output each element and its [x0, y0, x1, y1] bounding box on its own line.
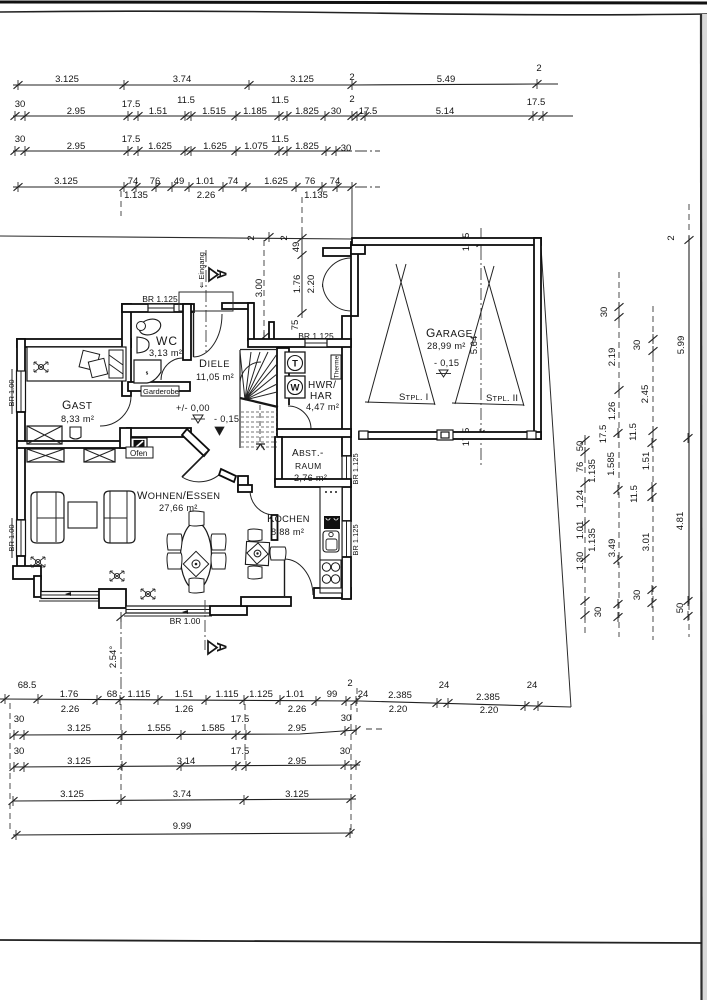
dim row 1 line	[13, 84, 558, 85]
svg-text:2.45: 2.45	[640, 385, 651, 404]
wall: gast top	[17, 339, 131, 347]
vertical dim 49 / 1.76 / 2.20 chain	[301, 238, 303, 314]
svg-text:5.14: 5.14	[436, 106, 455, 117]
svg-text:1.075: 1.075	[244, 141, 268, 152]
wall: house right outer, upper (HWR east)	[342, 316, 351, 456]
svg-text:17.5: 17.5	[359, 106, 378, 117]
gast stool	[70, 427, 81, 439]
svg-text:3.01: 3.01	[641, 533, 652, 552]
svg-text:BR 1.125: BR 1.125	[351, 524, 360, 555]
svg-text:3.00: 3.00	[254, 279, 265, 298]
gast wardrobe X	[27, 426, 62, 444]
window wohnen west BR 1.00	[17, 520, 26, 556]
wc shower	[134, 360, 161, 383]
wall: bay step block	[99, 589, 126, 608]
svg-text:1.135: 1.135	[587, 528, 598, 552]
svg-text:74: 74	[228, 176, 239, 187]
svg-text:2,76 m²: 2,76 m²	[294, 473, 327, 483]
svg-text:50: 50	[675, 603, 686, 614]
svg-text:WC: WC	[156, 334, 178, 348]
svg-text:T: T	[292, 359, 298, 370]
svg-text:2: 2	[347, 678, 352, 689]
svg-text:30: 30	[14, 746, 25, 757]
stair left edge	[239, 350, 241, 448]
wall: left outer lower segment	[17, 556, 25, 573]
svg-text:30: 30	[593, 607, 604, 618]
svg-text:76: 76	[575, 462, 586, 473]
svg-text:1.515: 1.515	[202, 106, 226, 117]
svg-text:- 0,15: - 0,15	[434, 358, 459, 368]
svg-text:3.74: 3.74	[173, 789, 192, 800]
svg-text:2.385: 2.385	[388, 690, 412, 701]
bottom row 1 line	[0, 699, 571, 707]
svg-text:DIELE: DIELE	[199, 358, 230, 370]
wall: abst west	[275, 437, 282, 482]
svg-text:ABST.-: ABST.-	[292, 448, 324, 459]
svg-text:5.49: 5.49	[437, 74, 456, 85]
scan border top second line	[0, 11, 707, 15]
svg-text:24: 24	[358, 689, 369, 700]
dim row 2 line	[13, 115, 573, 117]
entrance canopy	[179, 292, 233, 311]
svg-text:HWR/: HWR/	[308, 380, 336, 391]
vertical dim 3.00	[263, 240, 265, 336]
svg-text:30: 30	[340, 746, 351, 757]
window kitchen east BR 1.125	[342, 521, 351, 557]
node tick on property line	[265, 232, 274, 242]
dim row 3 line	[13, 150, 352, 152]
svg-text:2: 2	[349, 72, 354, 83]
scan border top thick line	[0, 2, 707, 3]
sink	[323, 531, 339, 552]
wall: bay corner bottom-left	[13, 566, 41, 579]
gast lamp	[34, 362, 48, 372]
svg-text:1.585: 1.585	[606, 452, 617, 476]
svg-text:A: A	[214, 269, 230, 279]
washer box W	[285, 376, 305, 398]
bottom block connectors	[9, 703, 11, 831]
svg-text:1.135: 1.135	[124, 190, 148, 201]
svg-text:2.20: 2.20	[480, 705, 499, 716]
wall: garage west	[351, 242, 358, 316]
kitchen door arc from diele	[250, 491, 272, 515]
svg-text:BR 1.125: BR 1.125	[351, 453, 360, 484]
svg-text:2.95: 2.95	[67, 106, 86, 117]
svg-text:3.49: 3.49	[607, 539, 618, 558]
nook diagonal wall 1	[182, 429, 209, 456]
svg-text:1.135: 1.135	[587, 459, 598, 483]
svg-text:9.99: 9.99	[173, 821, 192, 832]
svg-text:1.01: 1.01	[196, 176, 215, 187]
svg-text:1.625: 1.625	[264, 176, 288, 187]
svg-text:⇐ Eingang: ⇐ Eingang	[197, 252, 206, 288]
svg-text:KOCHEN: KOCHEN	[267, 513, 310, 525]
svg-text:Garderobe: Garderobe	[143, 387, 179, 396]
svg-text:4.81: 4.81	[675, 512, 686, 531]
kitchen south door leaf + arc	[284, 558, 286, 596]
therme box	[331, 355, 341, 379]
wall: front wall at wc with window	[122, 304, 194, 312]
stair top edge	[240, 349, 277, 351]
svg-text:99: 99	[327, 689, 338, 700]
svg-text:2.20: 2.20	[389, 704, 408, 715]
svg-text:30: 30	[15, 99, 26, 110]
extension dashes below row4	[120, 191, 122, 216]
svg-text:76: 76	[150, 176, 161, 187]
window bay middle BR 1.00	[126, 606, 210, 613]
svg-text:Ofen: Ofen	[130, 449, 147, 458]
svg-text:2: 2	[349, 94, 354, 105]
wall: wc east	[183, 304, 191, 360]
svg-text:A: A	[214, 642, 230, 652]
dining chairs	[167, 534, 182, 550]
sofa left	[31, 492, 64, 543]
sideboard X boxes	[27, 449, 64, 462]
stair walk line + arrow	[259, 405, 261, 444]
right col 3	[652, 306, 654, 640]
svg-text:17.5: 17.5	[231, 714, 250, 725]
svg-text:1.115: 1.115	[127, 689, 150, 700]
svg-text:2: 2	[246, 235, 257, 240]
svg-text:1.135: 1.135	[304, 190, 328, 201]
2.54 extension line	[120, 617, 122, 700]
svg-text:BR 1.125: BR 1.125	[142, 294, 178, 304]
wall: garage top	[352, 238, 541, 245]
svg-text:30: 30	[599, 307, 610, 318]
svg-text:76: 76	[305, 176, 316, 187]
wall: hwr top with window	[248, 339, 351, 347]
svg-text:11.5: 11.5	[628, 423, 639, 441]
svg-text:2.95: 2.95	[288, 756, 307, 767]
nook wall 3	[219, 469, 236, 482]
garage swing triangle I	[365, 264, 435, 405]
svg-text:1.30: 1.30	[575, 552, 586, 571]
garage center dash line	[480, 228, 482, 468]
scan border bottom line	[0, 940, 702, 943]
svg-text:30: 30	[331, 106, 342, 117]
stair walk arc	[240, 362, 261, 384]
svg-text:50: 50	[575, 441, 586, 452]
svg-text:3.125: 3.125	[54, 176, 78, 187]
svg-text:17.5: 17.5	[598, 425, 609, 444]
svg-text:W: W	[291, 383, 300, 394]
svg-text:74: 74	[128, 176, 139, 187]
wall: front wall right of door	[222, 303, 253, 309]
nook door swing arc	[182, 471, 223, 482]
section marker A top	[209, 268, 218, 281]
lower flight treads	[241, 412, 277, 447]
wall: abst bottom	[275, 479, 351, 487]
wall: porch top	[323, 248, 352, 256]
cooktop 4 rings	[320, 560, 341, 588]
right col 4	[688, 204, 690, 232]
svg-text:11.5: 11.5	[177, 95, 195, 106]
bottom row 3 line	[13, 765, 360, 767]
wall: left outer mid segment	[17, 412, 25, 520]
hob black	[324, 516, 340, 529]
wall: gast bottom	[17, 441, 127, 448]
svg-text:1.76: 1.76	[60, 689, 79, 700]
svg-text:1.51: 1.51	[641, 452, 652, 471]
svg-text:BR 1.00: BR 1.00	[7, 379, 16, 406]
svg-text:+/- 0,00: +/- 0,00	[176, 403, 210, 413]
wall: hwr bottom / abst top	[277, 429, 351, 437]
garage bottom corner blocks	[359, 431, 368, 439]
kitchen table diamond	[245, 541, 269, 565]
door gap hwr west	[281, 405, 290, 429]
svg-text:2.19: 2.19	[607, 348, 618, 367]
dim row 4 line	[13, 186, 352, 188]
wall: bottom mid (kitchen left part)	[241, 597, 291, 606]
svg-text:1.825: 1.825	[295, 141, 319, 152]
ceiling outlets	[31, 557, 45, 567]
svg-text:4,47 m²: 4,47 m²	[306, 402, 339, 412]
wall: bay block right	[210, 606, 247, 615]
svg-text:1.625: 1.625	[148, 141, 172, 152]
wall: garage east	[534, 238, 541, 439]
wc toilet	[137, 316, 163, 337]
wc door arc	[161, 358, 183, 380]
svg-text:49: 49	[291, 242, 302, 253]
svg-text:11.5: 11.5	[271, 95, 289, 106]
hwr door leaf + arc	[289, 429, 311, 431]
svg-text:3.125: 3.125	[60, 789, 84, 800]
svg-text:BR 1.00: BR 1.00	[7, 524, 16, 551]
svg-text:30: 30	[341, 713, 352, 724]
svg-text:RAUM: RAUM	[295, 461, 322, 471]
svg-text:2.20: 2.20	[306, 275, 317, 294]
svg-text:24: 24	[439, 680, 450, 691]
svg-text:3.125: 3.125	[55, 74, 79, 85]
svg-text:68: 68	[107, 689, 118, 700]
wc sink	[137, 337, 149, 353]
svg-text:11.5: 11.5	[271, 134, 289, 145]
svg-text:1.51: 1.51	[149, 106, 168, 117]
svg-text:3.125: 3.125	[67, 756, 91, 767]
kitchen counter	[320, 487, 342, 593]
svg-text:BR 1.00: BR 1.00	[170, 616, 201, 626]
property line north	[0, 236, 352, 239]
wall: wc block west	[122, 304, 131, 396]
svg-text:74: 74	[330, 176, 341, 187]
svg-text:17.5: 17.5	[527, 97, 546, 108]
svg-text:1.115: 1.115	[215, 689, 238, 700]
nook diagonal wall 2 (door leaf)	[182, 452, 207, 477]
svg-text:- 0,15: - 0,15	[214, 414, 239, 424]
svg-text:1.585: 1.585	[201, 723, 225, 734]
dim row 4 ticks	[14, 182, 23, 192]
property line diagonal east	[541, 247, 571, 707]
svg-text:3.125: 3.125	[290, 74, 314, 85]
svg-text:2.95: 2.95	[67, 141, 86, 152]
wall: wc bottom / garderobe top	[128, 382, 190, 391]
svg-text:HAR: HAR	[310, 391, 332, 402]
bottom row 2 line	[13, 730, 357, 735]
ofen label box	[126, 447, 153, 458]
section line A-A top	[205, 250, 207, 352]
svg-text:GARAGE: GARAGE	[426, 326, 473, 340]
svg-text:2: 2	[536, 63, 541, 74]
sofa right	[104, 491, 135, 543]
svg-text:49: 49	[174, 176, 185, 187]
svg-text:1.01: 1.01	[286, 689, 305, 700]
svg-text:2: 2	[279, 235, 290, 240]
svg-text:GAST: GAST	[62, 398, 92, 412]
svg-text:1.825: 1.825	[295, 106, 319, 117]
svg-text:3.125: 3.125	[285, 789, 309, 800]
scan border right edge	[701, 14, 707, 1000]
svg-text:1.26: 1.26	[607, 402, 618, 421]
bottom row 5 line	[13, 833, 353, 835]
svg-text:8,33 m²: 8,33 m²	[61, 414, 94, 424]
svg-text:11,05 m²: 11,05 m²	[196, 372, 234, 382]
coffee table	[68, 502, 97, 528]
dining lamp diamond	[183, 551, 208, 576]
svg-text:30: 30	[341, 143, 352, 154]
svg-text:2.26: 2.26	[197, 190, 216, 201]
wall: garage bottom	[359, 432, 541, 439]
dim row 2 ticks	[11, 111, 20, 121]
wall: stair east / hwr west	[277, 348, 289, 434]
svg-text:1.01: 1.01	[575, 521, 586, 540]
gast door arc	[100, 396, 131, 426]
wall: house right outer, lower	[342, 557, 351, 599]
svg-text:1.625: 1.625	[203, 141, 227, 152]
svg-text:24: 24	[527, 680, 538, 691]
svg-text:2.385: 2.385	[476, 692, 500, 703]
svg-text:30: 30	[632, 590, 643, 601]
wall: garderobe bottom / nook top	[127, 428, 191, 437]
window gast west BR 1.00	[17, 371, 26, 412]
stair cut line	[240, 398, 278, 407]
svg-text:68.5: 68.5	[18, 680, 37, 691]
svg-text:BR 1.125: BR 1.125	[298, 331, 334, 341]
ofen symbol	[131, 438, 147, 451]
gast bed	[27, 347, 126, 381]
svg-text:28,99 m²: 28,99 m²	[427, 341, 466, 351]
wall: left outer upper segment	[17, 339, 25, 373]
window abst east BR 1.125	[342, 456, 351, 482]
svg-text:3.74: 3.74	[173, 74, 192, 85]
svg-text:3.14: 3.14	[177, 756, 196, 767]
svg-text:3,13 m²: 3,13 m²	[149, 348, 182, 358]
svg-text:2.54°: 2.54°	[108, 646, 119, 668]
nook corner L wall	[238, 476, 248, 491]
right col 1	[584, 437, 586, 637]
svg-text:30: 30	[15, 134, 26, 145]
svg-text:30: 30	[14, 714, 25, 725]
svg-text:5.99: 5.99	[676, 336, 687, 355]
svg-text:2.95: 2.95	[288, 723, 307, 734]
garderobe box	[141, 386, 179, 396]
svg-text:1.24: 1.24	[575, 490, 586, 509]
wall: kitchen bottom right of door	[314, 588, 351, 598]
svg-text:WOHNEN/ESSEN: WOHNEN/ESSEN	[137, 490, 220, 502]
svg-text:8,88 m²: 8,88 m²	[271, 527, 304, 537]
svg-text:17.5: 17.5	[122, 99, 141, 110]
dim row 3 ticks	[11, 146, 20, 156]
bottom row 4 line	[13, 799, 356, 801]
svg-text:2.26: 2.26	[61, 704, 80, 715]
window bay left BR	[41, 592, 99, 599]
svg-text:2.26: 2.26	[288, 704, 307, 715]
svg-text:17.5: 17.5	[122, 134, 141, 145]
svg-text:75: 75	[290, 320, 301, 331]
porch double door arcs	[323, 258, 352, 287]
svg-text:3.125: 3.125	[67, 723, 91, 734]
wall: house right outer, mid	[342, 482, 351, 521]
dim row 1 ticks	[14, 80, 23, 90]
right col 2	[618, 272, 620, 637]
svg-text:1.555: 1.555	[147, 723, 171, 734]
svg-text:30: 30	[632, 340, 643, 351]
svg-text:1.125: 1.125	[249, 689, 273, 700]
dryer box T	[285, 352, 305, 373]
svg-text:1.26: 1.26	[175, 704, 194, 715]
front door leaf and swing	[193, 313, 195, 357]
kitchen chairs	[248, 529, 262, 541]
svg-text:11.5: 11.5	[629, 485, 640, 503]
garage swing triangle II	[452, 266, 524, 406]
svg-text:2: 2	[666, 235, 677, 240]
svg-text:1.51: 1.51	[175, 689, 194, 700]
dining table	[181, 523, 212, 590]
svg-text:1.76: 1.76	[292, 275, 303, 294]
winder treads	[240, 352, 277, 400]
svg-text:17.5: 17.5	[231, 746, 250, 757]
svg-text:1.185: 1.185	[243, 106, 267, 117]
svg-text:STPL. I: STPL. I	[399, 392, 428, 403]
garage bottom middle stub	[437, 430, 453, 440]
svg-text:STPL. II: STPL. II	[486, 393, 518, 404]
svg-text:Therme: Therme	[334, 355, 341, 378]
